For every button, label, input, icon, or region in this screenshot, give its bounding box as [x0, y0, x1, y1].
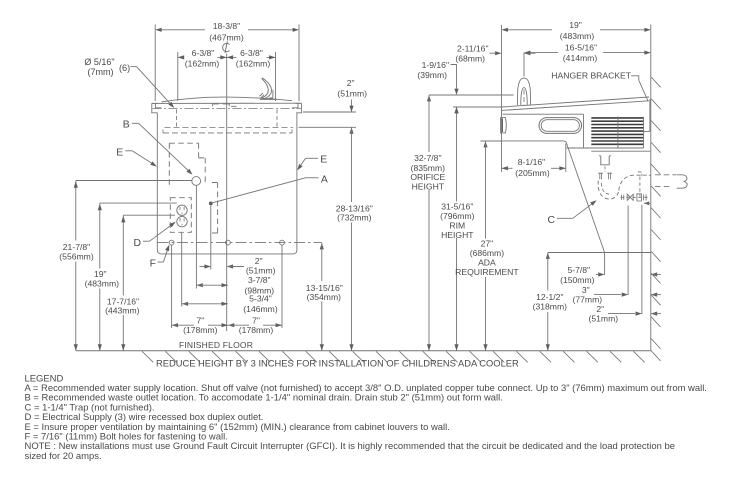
dimension 28-13/16 (732mm): [349, 127, 353, 133]
svg-text:FINISHED FLOOR: FINISHED FLOOR: [179, 340, 253, 350]
svg-text:HANGER BRACKET: HANGER BRACKET: [551, 70, 631, 80]
svg-text:Ø 5/16": Ø 5/16": [84, 57, 114, 67]
duplex outlet lower circle: [177, 216, 187, 226]
svg-text:(39mm): (39mm): [417, 70, 447, 80]
svg-text:12-1/2": 12-1/2": [536, 292, 563, 302]
bolt hole mounting line (dash-dot): [158, 242, 322, 244]
dimension 3-7/8 (98mm): [196, 283, 202, 287]
dimension 7 (178mm) left: [172, 323, 178, 327]
svg-text:(483mm): (483mm): [85, 279, 120, 289]
wall hatching: [651, 77, 660, 361]
svg-text:B: B: [123, 120, 130, 131]
hidden line - hanger top (dashed): [165, 127, 294, 129]
svg-text:6-3/8": 6-3/8": [240, 48, 263, 58]
finished floor line: [76, 350, 651, 352]
waste outlet circle B: [192, 177, 201, 186]
supply location dot A: [209, 202, 213, 206]
svg-text:NOTE : New installations must: NOTE : New installations must use Ground…: [25, 441, 675, 452]
svg-text:sized for 20 amps.: sized for 20 amps.: [25, 451, 102, 462]
svg-text:(205mm): (205mm): [515, 168, 550, 178]
centerline symbol: [223, 43, 230, 51]
front view basin right end cap: [292, 103, 302, 119]
drain tailpiece: [599, 156, 611, 165]
svg-text:(467mm): (467mm): [209, 32, 244, 42]
side view push button: [501, 118, 507, 133]
front view basin top: [162, 97, 293, 102]
dimension 32-7/8 (835mm) orifice height: [427, 95, 431, 101]
svg-text:(162mm): (162mm): [185, 59, 220, 69]
dimension 7 (178mm) right: [228, 323, 234, 327]
svg-text:(6): (6): [119, 63, 130, 73]
side view top sloped lid: [502, 97, 649, 110]
svg-text:(483mm): (483mm): [560, 31, 595, 41]
dimension 8-1/16 (205mm): [565, 144, 567, 173]
trap slip nuts: [598, 173, 612, 180]
side view recess oval outer: [539, 118, 582, 134]
dimension 5-3/4 (146mm): [182, 302, 188, 306]
svg-text:(68mm): (68mm): [455, 53, 485, 63]
svg-text:2": 2": [596, 304, 604, 314]
bolt hole left: [169, 240, 174, 245]
bolt hole right: [280, 240, 285, 245]
ADA height extension line: [481, 140, 503, 142]
dimension 17-7/16 (443mm): [123, 214, 175, 216]
side view bottom rear under louver: [567, 147, 644, 149]
dimension 19 (483mm) side width: [508, 29, 553, 31]
side view bottom front: [502, 141, 567, 144]
waste outlet extension line: [195, 186, 197, 289]
dimension 2 (51mm) rim to hanger: [351, 100, 353, 113]
supply stop valve (dashed): [621, 196, 650, 198]
svg-text:(51mm): (51mm): [246, 265, 276, 275]
side view wall line: [650, 25, 652, 351]
dimension 13-15/16 (354mm): [320, 243, 324, 249]
bolt hole extension right: [281, 245, 283, 328]
rim height extension line: [303, 111, 356, 113]
svg-text:3-7/8": 3-7/8": [248, 275, 271, 285]
waste stub escutcheon: [638, 172, 642, 197]
side view recess oval inner: [541, 120, 579, 132]
ADA clearance diagonal: [567, 144, 605, 253]
supply extension line: [210, 205, 212, 269]
hanger top extension line: [299, 126, 357, 128]
trap U bend (dashed): [598, 181, 619, 199]
svg-text:(51mm): (51mm): [588, 314, 618, 324]
dimension 5-7/8 (150mm): [596, 274, 598, 276]
bolt hole extension left: [171, 245, 173, 328]
svg-text:(77mm): (77mm): [572, 294, 602, 304]
orifice height extension line: [429, 94, 514, 96]
svg-text:(51mm): (51mm): [337, 88, 367, 98]
svg-text:16-5/16": 16-5/16": [565, 43, 597, 53]
outlet extension line: [181, 233, 183, 307]
svg-text:2-11/16": 2-11/16": [457, 44, 489, 54]
svg-text:F: F: [150, 259, 156, 270]
svg-text:(556mm): (556mm): [59, 251, 94, 261]
svg-text:2": 2": [347, 78, 355, 88]
trap extension verticals: [604, 253, 606, 276]
svg-text:8-1/16": 8-1/16": [518, 157, 545, 167]
bolt hole center: [226, 240, 231, 245]
front view cabinet body outline: [157, 120, 297, 254]
svg-text:(354mm): (354mm): [307, 292, 342, 302]
dimension 3 (77mm): [594, 294, 621, 296]
svg-text:3": 3": [582, 285, 590, 295]
dimension 18-3/8 (467mm) width: [154, 25, 156, 102]
dimension 31-5/16 (796mm) rim height: [454, 107, 458, 113]
svg-text:E: E: [320, 154, 327, 165]
svg-text:REQUIREMENT: REQUIREMENT: [455, 267, 519, 277]
svg-text:(178mm): (178mm): [183, 325, 218, 335]
svg-text:(162mm): (162mm): [236, 59, 271, 69]
hidden basin side right (dashed): [276, 110, 278, 128]
side view lower panel line: [503, 113, 584, 115]
hidden basin side left (dashed): [176, 110, 178, 128]
svg-text:REDUCE HEIGHT BY 3 INCHES FOR: REDUCE HEIGHT BY 3 INCHES FOR INSTALLATI…: [156, 359, 519, 369]
dimension 6-3/8 right: [275, 52, 277, 101]
dashed zone - waste/supply stepped outline: [169, 143, 217, 233]
svg-text:(318mm): (318mm): [533, 302, 568, 312]
floor hatching: [142, 351, 645, 362]
dimension 2 (51mm) wall: [608, 313, 635, 315]
svg-text:A: A: [321, 174, 328, 185]
front view bubbler: [262, 78, 271, 99]
svg-text:5-3/4": 5-3/4": [249, 294, 272, 304]
dimension 19 (483mm) outlet height: [100, 202, 177, 204]
side view back edge at wall: [649, 99, 651, 131]
svg-text:(146mm): (146mm): [243, 304, 278, 314]
hidden line - lower hidden edge (dashed): [163, 130, 292, 133]
waste stub through wall (dashed): [655, 174, 676, 176]
dimension 12-1/2 (318mm): [546, 253, 550, 259]
svg-text:E: E: [116, 148, 123, 159]
svg-text:1-9/16": 1-9/16": [422, 60, 449, 70]
front view centerline: [226, 54, 228, 332]
hidden line - basin back rim (dash-dot): [153, 108, 302, 110]
basin center drain hidden detail: [213, 104, 237, 106]
dimension 6-3/8 left: [177, 52, 179, 101]
svg-text:19": 19": [569, 20, 582, 30]
svg-text:(150mm): (150mm): [560, 275, 595, 285]
pipe break symbol: [677, 175, 688, 188]
dashed zone - electrical outlet box: [170, 198, 191, 233]
svg-text:6-3/8": 6-3/8": [192, 48, 215, 58]
svg-text:HEIGHT: HEIGHT: [412, 182, 445, 192]
svg-text:(414mm): (414mm): [563, 53, 598, 63]
svg-text:(7mm): (7mm): [88, 67, 114, 77]
dimension 21-7/8 (556mm) waste height: [76, 180, 192, 182]
side view louver grille: [591, 118, 643, 144]
svg-text:18-3/8": 18-3/8": [213, 21, 240, 31]
side view front edge: [501, 25, 503, 172]
svg-text:32-7/8": 32-7/8": [414, 153, 441, 163]
svg-text:5-7/8": 5-7/8": [567, 265, 590, 275]
svg-text:(178mm): (178mm): [239, 325, 274, 335]
dimension 16-5/16 (414mm) bubbler to wall: [523, 53, 525, 77]
front view basin left end cap: [152, 103, 162, 119]
svg-text:(732mm): (732mm): [337, 213, 372, 223]
side view panel division: [583, 114, 585, 148]
dimension 27 (686mm) ADA requirement: [483, 141, 487, 147]
svg-text:HEIGHT: HEIGHT: [441, 230, 474, 240]
rim height extension line side: [453, 106, 502, 108]
svg-text:C: C: [548, 215, 556, 226]
duplex outlet upper circle: [177, 205, 187, 215]
svg-text:D: D: [133, 238, 141, 249]
clear space line at 12-1/2: [548, 252, 651, 254]
dimension 2 (51mm) from centerline: [200, 266, 211, 268]
side view bubbler arch: [517, 78, 530, 105]
svg-text:(443mm): (443mm): [105, 305, 140, 315]
trap arm bend to wall (dashed): [619, 175, 644, 190]
